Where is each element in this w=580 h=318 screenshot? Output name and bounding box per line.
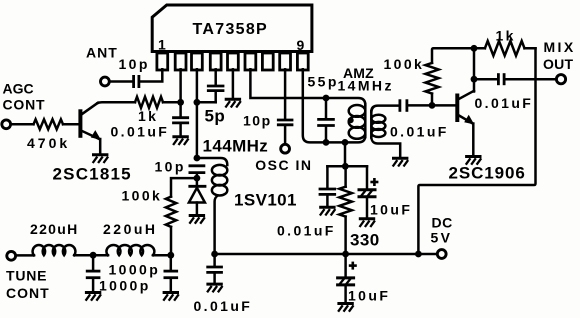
node collector rail junction <box>471 45 478 52</box>
wire Q2 emitter to ground <box>472 124 475 156</box>
wire TUNE to L1 <box>16 254 34 257</box>
wire tap to lower node <box>344 142 347 166</box>
wire bottom supply rail <box>215 253 419 256</box>
wire T1 secondary top to C 0.01uF <box>371 106 397 112</box>
terminal ANT <box>101 77 110 86</box>
svg-text:1000p: 1000p <box>109 262 161 278</box>
wire to DC terminal <box>418 253 437 256</box>
wire L2 to node <box>153 254 171 257</box>
node pin2 junction <box>177 99 184 106</box>
capacitor 0.01uF (mixer coupling) <box>398 99 401 112</box>
svg-text:10p: 10p <box>155 159 186 175</box>
U1 pin 4 <box>210 53 221 70</box>
node 55p bottom junction <box>323 139 330 146</box>
wire varactor to ground <box>196 203 199 215</box>
svg-text:0.01uF: 0.01uF <box>194 298 253 314</box>
wire pin 9 to transformer primary bottom <box>303 69 366 142</box>
wire to 10uF (right branch) <box>366 166 369 189</box>
ground (10uF supply) <box>337 302 353 305</box>
svg-text:10uF: 10uF <box>370 202 412 218</box>
svg-text:10p: 10p <box>119 56 150 72</box>
ground (10uF osc) <box>359 217 375 220</box>
resistor R 1k (Q1 collector) <box>135 97 163 108</box>
op-amp U1 TA7358P IC body <box>152 5 312 52</box>
node collector/output junction <box>471 76 478 83</box>
svg-text:1k: 1k <box>138 108 158 124</box>
node tap junction <box>342 139 349 146</box>
wire ANT to C 10p <box>110 80 133 83</box>
wire to C 0.01uF (left branch) <box>326 166 329 188</box>
svg-text:0.01uF: 0.01uF <box>277 223 336 239</box>
svg-text:1: 1 <box>158 37 168 53</box>
ground (varactor) <box>189 214 205 217</box>
ground (T1 secondary) <box>392 157 408 160</box>
node 55p top junction <box>323 95 330 102</box>
U1 pin 2 <box>175 53 186 70</box>
ground (supply bypass) <box>206 283 222 286</box>
node coil/0.01uF junction <box>211 251 218 258</box>
capacitor 0.01uF (output coupling) <box>497 73 500 85</box>
svg-text:DC: DC <box>432 215 453 231</box>
capacitor 10uF (supply) <box>349 264 357 267</box>
svg-text:TA7358P: TA7358P <box>193 21 269 38</box>
capacitor 55p <box>317 118 335 121</box>
svg-text:5V: 5V <box>431 230 453 246</box>
svg-text:2SC1815: 2SC1815 <box>53 164 132 183</box>
svg-text:100k: 100k <box>122 188 163 204</box>
capacitor 10uF (osc supply) <box>370 181 378 184</box>
svg-text:55p: 55p <box>308 74 339 90</box>
node rail/330/10uF junction <box>342 251 349 258</box>
svg-text:10p: 10p <box>243 112 272 128</box>
capacitor 0.01uF (supply bypass) <box>213 254 216 266</box>
ground (pin 2 bypass) <box>172 135 188 138</box>
svg-text:2SC1906: 2SC1906 <box>449 163 526 182</box>
svg-text:1k: 1k <box>496 28 516 44</box>
wire C 10p to pin 1 <box>140 69 162 81</box>
transformer T1 secondary winding <box>370 111 373 138</box>
resistor R 330 <box>344 166 347 186</box>
svg-text:AGC: AGC <box>3 80 34 96</box>
inductor L 220uH (first) <box>33 245 76 255</box>
wire 10p to OSC terminal <box>284 126 287 145</box>
svg-text:5p: 5p <box>205 106 226 125</box>
wire pin 3 down to varactor node <box>196 69 199 158</box>
svg-text:330: 330 <box>350 231 380 250</box>
wire top rail to 100k <box>432 48 536 63</box>
svg-text:1SV101: 1SV101 <box>234 190 297 209</box>
ground (1000p second) <box>163 291 179 294</box>
wire L1 to node <box>74 254 108 257</box>
resistor R 1k (Q2 collector) <box>485 41 525 56</box>
node 330/10uF junction <box>342 163 349 170</box>
svg-text:ANT: ANT <box>86 45 118 61</box>
capacitor 1000p (first) <box>92 255 95 270</box>
varactor D1 1SV101 <box>188 185 206 188</box>
wire 5p to jog <box>214 92 217 103</box>
wire pin 4 down <box>214 69 217 85</box>
wire C 0.01uF to Q2 base <box>408 104 456 107</box>
transistor Q1 2SC1815 <box>80 103 101 140</box>
svg-text:100k: 100k <box>384 56 425 72</box>
wire 55p bottom lead <box>325 127 328 143</box>
svg-text:OUT: OUT <box>543 56 574 72</box>
node Q2 base / 100k junction <box>429 102 436 109</box>
capacitor 10p (varactor coupling) <box>189 164 206 167</box>
U1 pin 5 <box>228 53 239 70</box>
wire lower node rail <box>327 165 367 168</box>
svg-text:470k: 470k <box>27 135 70 151</box>
ground (osc bypass) <box>319 206 335 209</box>
resistor R 100k (Q2 bias) <box>425 63 438 94</box>
resistor R 100k (tune feed) <box>166 197 176 227</box>
wire collector to output cap <box>474 78 497 81</box>
transformer T1 primary winding <box>364 104 367 137</box>
capacitor 0.01uF (osc bypass) <box>319 188 337 191</box>
wire 55p top lead <box>325 98 328 118</box>
U1 pin 6 <box>245 53 256 70</box>
wire 100k to base node <box>431 94 434 106</box>
inductor L 220uH (second) <box>106 245 154 255</box>
terminal OSC IN <box>281 144 290 153</box>
svg-text:1000p: 1000p <box>99 277 151 293</box>
wire R 1k to pin 2 <box>163 101 181 104</box>
U1 pin 1 <box>157 53 168 70</box>
wire varactor node to R 100k <box>171 178 197 197</box>
svg-text:OSC IN: OSC IN <box>255 157 312 173</box>
svg-text:0.01uF: 0.01uF <box>475 95 534 111</box>
wire R 100k to tune rail <box>170 227 173 255</box>
capacitor 0.01uF (pin 2 bypass) <box>172 116 189 119</box>
U1 pin 8 <box>280 53 291 70</box>
svg-text:TUNE: TUNE <box>6 268 47 284</box>
wire 10uF to ground <box>366 198 369 219</box>
wire DC feed riser <box>418 48 535 254</box>
svg-text:220uH: 220uH <box>103 221 158 237</box>
terminal MIX OUT <box>556 75 565 84</box>
wire AGC to R 470k <box>11 123 34 126</box>
transformer T1 phase dot <box>348 117 354 123</box>
wire Q1 collector to R 1k <box>98 101 136 104</box>
svg-text:CONT: CONT <box>3 97 46 113</box>
U1 pin 7 <box>262 53 273 70</box>
svg-text:0.01uF: 0.01uF <box>111 124 170 140</box>
wire output cap to MIX OUT <box>505 78 556 81</box>
wire pin 6 to transformer primary top <box>250 69 365 105</box>
transistor Q2 2SC1906 <box>457 91 474 125</box>
svg-text:CONT: CONT <box>6 285 50 301</box>
wire T1 secondary bottom to ground <box>371 137 400 158</box>
node pin3/5p junction <box>194 99 201 106</box>
svg-text:220uH: 220uH <box>30 221 79 237</box>
svg-text:10uF: 10uF <box>348 287 390 303</box>
capacitor 10p (ANT coupling) <box>132 75 135 88</box>
ground (pin 5) <box>225 98 241 101</box>
svg-text:144MHz: 144MHz <box>203 137 269 156</box>
wire Q1 emitter to ground <box>99 139 102 154</box>
wire 10p to varactor <box>196 174 199 185</box>
terminal DC 5V <box>437 250 446 259</box>
ground (Q2 emitter) <box>465 155 481 158</box>
wire C to ground <box>326 196 329 207</box>
svg-text:MIX: MIX <box>544 39 576 55</box>
inductor L 144MHz coil <box>197 158 227 165</box>
node DC feed junction <box>415 251 422 258</box>
svg-text:9: 9 <box>297 37 307 53</box>
node varactor/100k junction <box>194 175 201 182</box>
wire R 470k to Q1 base <box>63 123 79 126</box>
svg-text:0.01uF: 0.01uF <box>390 124 449 140</box>
node 1000p second junction <box>167 252 174 259</box>
ground (1000p first) <box>85 291 101 294</box>
svg-text:14MHz: 14MHz <box>338 78 394 94</box>
capacitor 1000p (second) <box>170 255 173 270</box>
resistor R 470k <box>34 119 64 129</box>
U1 pin 3 <box>192 53 203 70</box>
terminal AGC CONT <box>2 120 11 129</box>
node 1000p first junction <box>90 252 97 259</box>
capacitor 5p (pin 4) <box>207 85 225 88</box>
node varactor top junction <box>194 155 201 162</box>
wire 5p bottom jog <box>197 101 216 104</box>
wire pin 8 down <box>284 69 287 119</box>
wire pin 5 down <box>232 69 235 98</box>
wire cap to ground <box>179 124 182 136</box>
capacitor 10p (OSC IN) <box>277 119 294 122</box>
terminal TUNE CONT <box>7 251 16 260</box>
wire pin 2 down <box>179 69 182 116</box>
wire Q2 collector riser <box>473 48 476 91</box>
ground (Q1 emitter) <box>92 153 108 156</box>
U1 pin 9 <box>297 53 308 70</box>
